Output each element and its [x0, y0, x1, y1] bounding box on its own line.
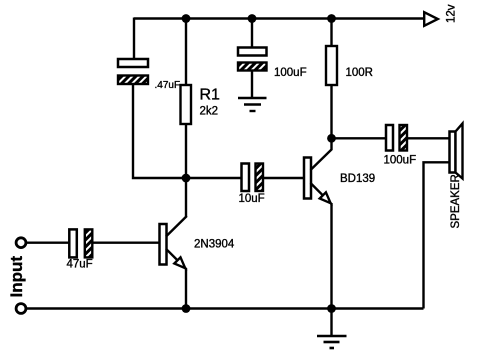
wire node B to output cap — [332, 137, 388, 139]
resistor R1 body — [181, 85, 192, 124]
speaker cone — [456, 124, 463, 179]
wire bottom ground rail — [26, 307, 424, 309]
junction dot rail/R2 — [327, 14, 336, 23]
Q1 emitter arrow — [174, 257, 185, 268]
svg-text:Input: Input — [7, 256, 26, 298]
junction dot bottom rail / ground — [327, 304, 336, 313]
transistor Q1 2N3904 base bar — [160, 224, 167, 265]
wire node A to C3 — [186, 177, 242, 179]
wire R1 bottom to node A — [185, 124, 187, 178]
resistor R2 100R body — [326, 46, 337, 85]
junction dot Q1 emitter/bottom rail — [182, 304, 191, 313]
capacitor C4 100uF output right plate (hatched) — [400, 125, 408, 151]
12v supply arrow — [424, 12, 438, 26]
capacitor C .47uF top plate — [118, 59, 148, 67]
capacitor C2 100uF bottom plate (hatched) — [238, 63, 267, 71]
input terminal upper — [16, 238, 26, 248]
capacitor C5 47uF left plate — [69, 229, 77, 257]
wire rail to C2 — [251, 19, 253, 49]
transistor Q2 BD139 base bar — [304, 158, 311, 199]
main ground symbol — [317, 336, 347, 348]
svg-text:SPEAKER: SPEAKER — [450, 174, 462, 228]
wire C2 bottom to ground — [251, 71, 253, 99]
wire C5 to Q1 base — [92, 241, 159, 243]
junction dot rail/C2 — [248, 14, 257, 23]
svg-text:100uF: 100uF — [384, 155, 417, 167]
capacitor C3 10uF left plate — [242, 164, 250, 192]
Q2 emitter lead — [311, 183, 332, 204]
capacitor C5 47uF right plate (hatched) — [85, 229, 93, 257]
capacitor C3 10uF right plate (hatched) — [256, 164, 264, 192]
svg-text:BD139: BD139 — [340, 173, 375, 185]
svg-text:2k2: 2k2 — [200, 106, 219, 118]
Q1 collector lead — [166, 216, 187, 237]
wire Q2 emitter down to bottom rail — [330, 203, 332, 309]
wire output cap to speaker top terminal — [407, 137, 450, 139]
svg-text:10uF: 10uF — [239, 193, 265, 205]
wire Q1 emitter down to bottom rail — [185, 268, 187, 309]
wire to main ground — [330, 309, 332, 337]
wire C3 to Q2 base — [263, 177, 304, 179]
wire top supply rail — [134, 17, 424, 19]
input terminal lower — [16, 304, 26, 314]
svg-text:.47uF: .47uF — [155, 80, 181, 91]
svg-text:R1: R1 — [200, 87, 221, 104]
junction dot rail/R1 — [182, 14, 191, 23]
svg-text:100R: 100R — [346, 67, 374, 79]
node B junction dot — [327, 134, 336, 143]
Q2 emitter arrow — [320, 192, 331, 203]
capacitor C2 100uF top plate — [238, 48, 267, 56]
node A junction dot — [182, 174, 191, 183]
capacitor C4 100uF output left plate — [386, 125, 393, 151]
Q2 collector lead — [311, 138, 332, 170]
capacitor C .47uF bottom plate (polarized, hatched) — [118, 76, 148, 85]
wire input to C5 — [26, 241, 70, 243]
svg-text:100uF: 100uF — [274, 67, 307, 79]
wire R2 bottom to collector node B — [330, 85, 332, 138]
wire rail to R2 top — [330, 19, 332, 48]
svg-text:47uF: 47uF — [67, 259, 93, 271]
Q1 emitter lead — [166, 249, 186, 269]
svg-text:12v: 12v — [446, 4, 458, 23]
svg-text:2N3904: 2N3904 — [194, 239, 235, 251]
wire from rail down to C1 top — [133, 18, 135, 61]
speaker driver body — [450, 132, 456, 173]
ground under C2 — [238, 98, 267, 111]
wire node A down to Q1 collector — [185, 178, 187, 217]
wire speaker bottom terminal to ground rail — [424, 162, 450, 308]
wire from C1 bottom down and right to node A — [133, 84, 186, 178]
wire rail to R1 top — [185, 19, 187, 87]
